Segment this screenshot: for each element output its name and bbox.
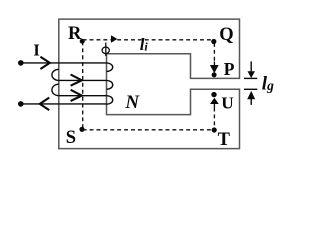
coil right-side arc 1: [107, 63, 113, 72]
winding direction arrow on turn 3 (open V): [71, 90, 82, 101]
svg-text:I: I: [33, 40, 39, 59]
coil left-side arc 1: [52, 69, 59, 80]
coil turn wire 3: [59, 95, 107, 97]
flux path dashed segment Q-P (right upper): [213, 43, 215, 62]
node P: [212, 72, 217, 77]
wire: bottom lead out of coil: [21, 103, 107, 105]
node U: [211, 92, 216, 97]
flux path dashed segment R-S (left): [82, 42, 84, 129]
terminal node (top): [18, 60, 24, 66]
flux path dashed segment U-T (right lower): [213, 108, 215, 128]
node T: [212, 127, 217, 132]
air-gap dimension tick (bottom): [244, 88, 257, 90]
air-gap dimension arrow (down): [250, 61, 252, 71]
arrow toward gap top face (above P): [210, 65, 219, 73]
flux path dashed segment S-T (bottom): [83, 129, 215, 131]
svg-text:S: S: [66, 128, 76, 148]
svg-text:N: N: [124, 92, 140, 113]
svg-text:U: U: [221, 94, 234, 113]
svg-text:li: li: [140, 35, 149, 54]
flux direction arrow on top path: [111, 35, 117, 43]
coil turn wire 2: [59, 79, 107, 81]
node S: [79, 127, 84, 132]
node R: [80, 39, 85, 44]
svg-text:T: T: [218, 130, 231, 150]
node Q: [211, 39, 216, 44]
solid stem below U arrow: [213, 103, 215, 107]
air-gap dimension arrow (up): [247, 91, 255, 99]
current arrow (in, open V pointing right): [40, 57, 49, 69]
terminal node (bottom): [18, 101, 24, 107]
wire: top lead into coil: [21, 62, 107, 64]
arrow toward gap bottom face (below U): [210, 98, 219, 104]
current arrow (out, open V pointing left): [40, 98, 49, 111]
svg-text:R: R: [68, 24, 82, 44]
solid stem above P arrow: [213, 62, 215, 66]
flux path dashed segment R-Q (top): [83, 39, 215, 41]
svg-text:P: P: [224, 59, 235, 79]
coil left-side arc 2: [52, 84, 59, 96]
winding direction arrow on turn 2 (open V): [71, 75, 82, 86]
svg-text:Q: Q: [219, 25, 233, 45]
coil right-side arc 3: [107, 96, 113, 105]
air-gap dimension tick (top): [244, 77, 257, 79]
svg-text:lg: lg: [262, 74, 274, 95]
coil right-side arc 2: [107, 80, 113, 89]
flux symbol phi: [102, 47, 109, 54]
core outline (C-core with window and air gap): [59, 19, 240, 149]
